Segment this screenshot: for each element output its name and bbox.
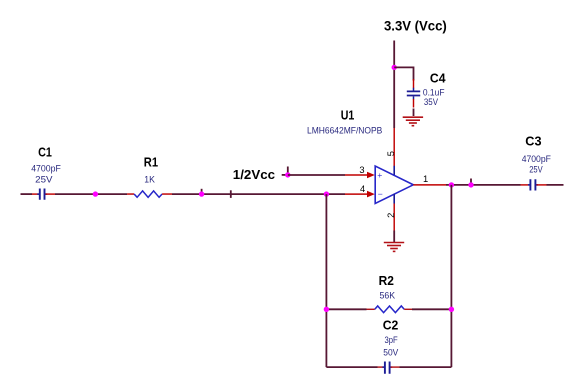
pin 1: [413, 184, 446, 186]
capacitor C4: [407, 79, 420, 116]
node junction R2 left: [324, 307, 329, 312]
node junction 1/2Vcc: [285, 172, 290, 177]
svg-text:0.1uF: 0.1uF: [423, 87, 445, 97]
wire output right end: [547, 184, 564, 186]
svg-text:56K: 56K: [380, 290, 396, 300]
svg-text:5: 5: [386, 151, 396, 156]
node tick: [230, 190, 232, 198]
resistor R2: [367, 306, 413, 313]
svg-text:50V: 50V: [383, 348, 399, 358]
wire output: [446, 184, 521, 186]
wire feedback left vertical: [325, 194, 327, 367]
capacitor C3: [521, 179, 547, 190]
svg-text:R2: R2: [379, 273, 394, 288]
svg-text:1/2Vcc: 1/2Vcc: [233, 167, 276, 182]
svg-text:4: 4: [360, 184, 365, 194]
wire R2 row left: [326, 308, 366, 310]
capacitor C1: [32, 189, 55, 200]
wire Vcc vertical: [393, 41, 395, 129]
svg-text:C1: C1: [38, 144, 52, 159]
node junction R2 right: [449, 307, 454, 312]
wire 1/2Vcc stub: [282, 174, 288, 176]
wire R2 row right: [412, 308, 451, 310]
node junction dot2 with tick: [201, 189, 203, 193]
svg-text:C3: C3: [525, 133, 541, 148]
resistor R1: [127, 191, 172, 197]
node junction out1: [449, 182, 454, 187]
svg-text:3: 3: [359, 165, 364, 175]
svg-text:R1: R1: [144, 154, 159, 169]
node junction out2 with tick: [470, 179, 472, 184]
wire C4 branch: [394, 67, 413, 80]
wire feedback right vertical: [450, 185, 452, 367]
pin 2 stub: [393, 194, 395, 204]
capacitor C2: [378, 362, 400, 374]
svg-text:+: +: [377, 170, 382, 180]
svg-text:4700pF: 4700pF: [31, 164, 61, 174]
svg-text:4700pF: 4700pF: [522, 154, 551, 164]
op-amp U1 triangle: [375, 166, 413, 204]
svg-text:1: 1: [423, 174, 428, 184]
svg-text:2: 2: [386, 213, 396, 218]
wire to pin 3: [288, 174, 345, 176]
svg-text:LMH6642MF/NOPB: LMH6642MF/NOPB: [307, 126, 382, 136]
wire C1 to R1: [55, 193, 127, 195]
svg-text:3pF: 3pF: [385, 335, 398, 345]
svg-text:25V: 25V: [35, 174, 53, 184]
wire C2 row left: [326, 366, 377, 368]
svg-text:35V: 35V: [424, 97, 439, 107]
pin 3: [345, 174, 367, 176]
ground C4: [403, 117, 423, 126]
svg-text:1K: 1K: [144, 175, 155, 185]
pin 4: [345, 193, 367, 195]
svg-text:25V: 25V: [529, 165, 543, 175]
svg-text:−: −: [378, 189, 383, 199]
node junction feedback left: [324, 191, 329, 196]
svg-text:U1: U1: [341, 108, 355, 123]
svg-text:3.3V (Vcc): 3.3V (Vcc): [384, 19, 447, 34]
svg-text:C2: C2: [383, 318, 399, 333]
ground U1: [384, 243, 404, 252]
node junction Vcc: [392, 65, 397, 70]
wire R1 to pin4: [172, 193, 345, 195]
wire input left: [21, 193, 33, 195]
wire C2 row right: [400, 366, 452, 368]
node junction dot1: [93, 191, 98, 196]
svg-text:C4: C4: [430, 70, 446, 85]
pin 5 stub: [393, 128, 395, 167]
